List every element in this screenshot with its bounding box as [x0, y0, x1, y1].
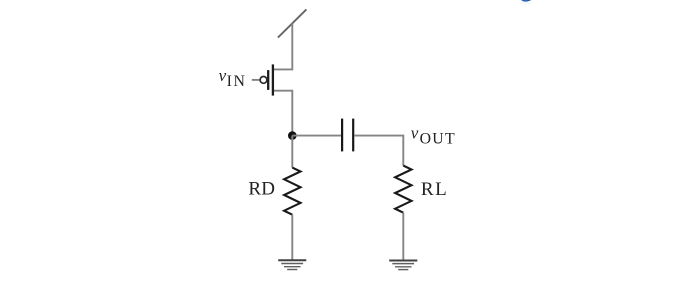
- supply symbol (VDD slash): [278, 9, 307, 37]
- blue icon fragment at top edge: [519, 0, 533, 5]
- svg-text:v: v: [411, 124, 419, 143]
- svg-text:IN: IN: [227, 73, 247, 90]
- transistor Q1 gate bar: [267, 70, 269, 90]
- resistor RD zigzag: [284, 168, 300, 215]
- wire: RL to ground: [402, 213, 404, 261]
- wire: capacitor right plate to vOUT corner, down to RL: [354, 136, 403, 166]
- ground (RL): [389, 261, 417, 270]
- svg-text:RL: RL: [421, 179, 448, 200]
- wire: transistor source leg down to node: [273, 91, 292, 136]
- capacitor C1 left plate: [341, 119, 343, 152]
- wire: node down to RD: [291, 136, 293, 168]
- wire: RD to ground: [291, 215, 293, 261]
- wire: gate lead: [252, 79, 260, 81]
- wire: supply down to transistor drain leg: [273, 24, 292, 70]
- svg-text:v: v: [219, 66, 227, 85]
- svg-text:RD: RD: [248, 179, 275, 200]
- resistor RL zigzag: [395, 166, 411, 213]
- ground (RD): [278, 260, 306, 269]
- transistor Q1 gate bubble: [260, 77, 267, 84]
- wire: node to capacitor left plate: [292, 135, 341, 137]
- svg-text:OUT: OUT: [420, 131, 456, 148]
- node A (junction dot): [288, 131, 297, 140]
- capacitor C1 right plate: [352, 119, 354, 152]
- transistor Q1 (PMOS) channel bar: [272, 64, 274, 95]
